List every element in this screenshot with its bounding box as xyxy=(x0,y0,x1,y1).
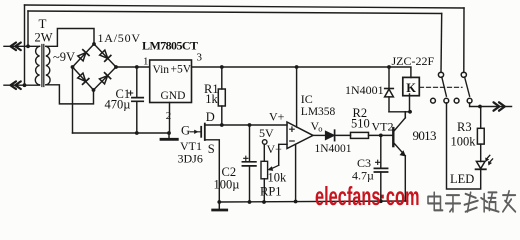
svg-text:510: 510 xyxy=(351,116,370,130)
wire bridge right corner to LM7805 Vin xyxy=(116,66,150,68)
svg-text:G: G xyxy=(181,124,190,138)
relay arm 2 xyxy=(465,77,470,96)
svg-text:D: D xyxy=(206,110,215,124)
resistor R3 xyxy=(480,107,482,129)
output chevrons xyxy=(494,102,505,110)
svg-text:elecfans·com: elecfans·com xyxy=(315,181,420,211)
svg-text:Vin: Vin xyxy=(153,64,170,76)
node op-amp V+ tap xyxy=(295,65,299,69)
wire right outer vertical to relay pivot 2 xyxy=(463,8,465,72)
wire op-amp inverting input to RP1 wiper arrow xyxy=(279,144,287,165)
svg-text:IC: IC xyxy=(301,92,313,106)
svg-text:3: 3 xyxy=(197,52,203,64)
wire top outer AC feedback rail xyxy=(25,5,465,8)
diode D1 1N4001 flyback xyxy=(388,67,390,88)
potentiometer RP1 with 5V terminal xyxy=(262,140,267,145)
wire pin 2 to rail A xyxy=(169,103,171,134)
node rail B left end xyxy=(217,200,221,204)
node bridge top corner xyxy=(92,42,96,46)
transformer T secondary winding xyxy=(46,46,50,85)
node bridge bottom corner xyxy=(92,88,96,92)
transformer T primary winding xyxy=(35,46,39,85)
relay stationary contact 1b xyxy=(444,98,449,103)
node pin2 / rail A end xyxy=(167,131,171,135)
relay stationary contact 2a xyxy=(454,98,459,103)
capacitor C3 xyxy=(380,135,382,168)
resistor R2 xyxy=(351,132,369,138)
relay stationary contact 1a xyxy=(431,98,436,103)
svg-text:100k: 100k xyxy=(451,134,477,148)
svg-text:V+: V+ xyxy=(269,109,285,123)
wire secondary top to bridge top corner xyxy=(46,29,94,47)
svg-text:S: S xyxy=(208,142,215,156)
relay coil K box xyxy=(403,77,420,95)
node base / C3 tap xyxy=(379,134,383,138)
node C2 top tap xyxy=(248,123,252,127)
svg-text:2W: 2W xyxy=(35,31,53,45)
svg-text:LM358: LM358 xyxy=(301,106,336,118)
svg-text:5V: 5V xyxy=(259,126,274,140)
svg-text:+5V: +5V xyxy=(171,63,192,75)
relay pivot contact 2 xyxy=(461,72,466,77)
svg-text:RP1: RP1 xyxy=(260,185,282,199)
wire secondary bottom to bridge bottom corner xyxy=(46,85,94,104)
node junction top AC / inner rail xyxy=(26,44,30,48)
diode bridge bottom-left (points to bottom corner) xyxy=(77,73,89,85)
bridge rectifier diamond xyxy=(73,44,117,90)
svg-text:2: 2 xyxy=(166,110,172,122)
regulator U LM7805CT box xyxy=(150,60,192,103)
wire drain node to op-amp + input xyxy=(205,124,287,126)
wire op-amp output xyxy=(313,134,326,136)
svg-text:LM7805CT: LM7805CT xyxy=(142,39,198,53)
wire op-amp ground lead xyxy=(295,144,297,201)
capacitor C2 xyxy=(249,125,251,162)
ground symbol rail B xyxy=(218,202,220,209)
diode bridge top-right (points to right corner) xyxy=(99,50,111,62)
wire ground rail B xyxy=(219,201,407,202)
svg-text:R3: R3 xyxy=(457,120,472,134)
LED xyxy=(476,161,485,168)
node C1 bottom on rail A xyxy=(135,131,139,135)
node flyback diode top xyxy=(387,65,391,69)
svg-text:1N4001: 1N4001 xyxy=(345,83,384,97)
wire source to ground rail B xyxy=(205,140,220,202)
wire left outer vertical to bottom AC terminal xyxy=(24,5,26,85)
resistor R1 xyxy=(221,67,223,89)
svg-text:o: o xyxy=(318,124,322,134)
wire right inner vertical to relay pivot 1 xyxy=(440,14,443,73)
relay stationary contact 2b xyxy=(467,98,472,103)
node C1 top tap xyxy=(135,65,139,69)
node R1 top xyxy=(220,65,224,69)
ground symbol rail A xyxy=(168,133,170,138)
svg-text:3DJ6: 3DJ6 xyxy=(178,151,203,165)
node bridge right corner xyxy=(114,65,118,69)
svg-text:1N4001: 1N4001 xyxy=(315,143,352,155)
node drain / R1 bottom xyxy=(220,123,224,127)
transformer T core xyxy=(42,45,44,87)
wire coil bottom node xyxy=(389,94,411,112)
diode bridge bottom-right (points to right corner) xyxy=(99,73,111,85)
wire ground rail A xyxy=(73,132,170,134)
svg-text:100µ: 100µ xyxy=(214,178,240,192)
AC input terminal bottom chevrons xyxy=(11,81,21,89)
watermark chinese characters xyxy=(428,191,515,212)
svg-text:JZC-22F: JZC-22F xyxy=(392,54,435,68)
svg-text:LED: LED xyxy=(450,172,474,186)
svg-text:470µ: 470µ xyxy=(105,98,131,112)
transistor VT1 (FET) xyxy=(201,124,205,140)
relay arm 1 xyxy=(442,77,447,96)
svg-text:GND: GND xyxy=(161,90,186,102)
diode bridge top-left (points to top corner) xyxy=(77,50,89,62)
relay actuation dashed link xyxy=(420,86,463,88)
svg-text:K: K xyxy=(406,81,416,95)
wire output node to chevron xyxy=(470,103,512,107)
wire op-amp V+ supply lead xyxy=(296,67,298,127)
svg-text:~9V: ~9V xyxy=(53,50,75,64)
relay pivot contact 1 xyxy=(438,72,443,77)
svg-text:T: T xyxy=(39,16,47,31)
diode D2 1N4001 series xyxy=(326,131,335,139)
wire LED return to relay contact 1b xyxy=(447,103,481,189)
node bridge left corner xyxy=(71,65,75,69)
wire bridge left corner to ground rail A xyxy=(72,67,74,133)
svg-text:1k: 1k xyxy=(205,92,218,106)
wire AC input bottom xyxy=(4,84,40,86)
node junction bottom AC / outer rail xyxy=(23,83,27,87)
svg-text:VT2: VT2 xyxy=(372,119,394,133)
transistor VT2 9013 xyxy=(392,128,394,146)
wire 5V rail from pin 3 to relay coil xyxy=(192,67,411,78)
wire left inner vertical to top AC terminal xyxy=(27,11,29,46)
AC input terminal top chevrons xyxy=(11,43,21,51)
op-amp U1 LM358 xyxy=(287,122,313,149)
wire AC input top xyxy=(4,45,40,47)
wire top inner AC feedback rail xyxy=(28,11,442,14)
svg-text:1: 1 xyxy=(143,56,149,68)
svg-text:1A/50V: 1A/50V xyxy=(98,31,141,45)
svg-text:10k: 10k xyxy=(268,171,288,185)
capacitor C1 xyxy=(136,67,138,97)
svg-text:9013: 9013 xyxy=(413,128,437,143)
